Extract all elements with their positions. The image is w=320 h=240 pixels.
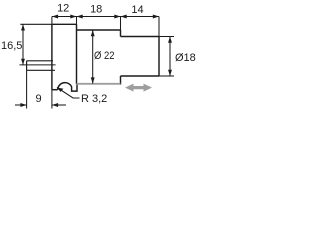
svg-text:9: 9 [36, 93, 42, 105]
svg-text:12: 12 [57, 3, 69, 15]
svg-text:16,5: 16,5 [1, 40, 22, 52]
svg-text:14: 14 [131, 4, 143, 16]
svg-text:Ø 22: Ø 22 [94, 50, 115, 62]
svg-text:Ø18: Ø18 [175, 52, 196, 64]
svg-text:R 3,2: R 3,2 [81, 93, 107, 105]
svg-text:18: 18 [90, 3, 102, 15]
